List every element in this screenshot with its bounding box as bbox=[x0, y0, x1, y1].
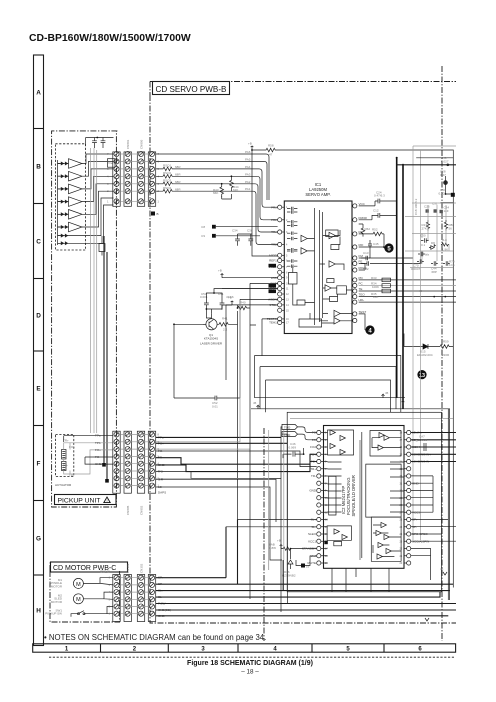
driver IC2 M62417FP bbox=[324, 426, 405, 569]
node +B laser bbox=[231, 301, 234, 305]
connector CN motor b bbox=[148, 575, 155, 622]
cap C45 bbox=[368, 240, 372, 250]
junction dots TE rows bbox=[433, 296, 435, 298]
svg-text:1C6: 1C6 bbox=[449, 263, 455, 267]
IC2 bottom stubs bbox=[332, 568, 389, 592]
jumper L7 bbox=[301, 564, 305, 568]
svg-text:100K: 100K bbox=[372, 285, 379, 289]
IC2 left pins bbox=[317, 430, 321, 434]
resistor R52 bbox=[359, 232, 384, 236]
svg-text:CN302: CN302 bbox=[139, 563, 143, 573]
IC1 internal amplifiers bbox=[301, 232, 340, 324]
wire loop 3 bbox=[266, 380, 391, 412]
svg-text:TEH1: TEH1 bbox=[269, 321, 277, 325]
capacitor C53 bbox=[204, 298, 209, 310]
svg-text:C26: C26 bbox=[424, 205, 430, 209]
svg-text:TE: TE bbox=[359, 287, 363, 291]
svg-text:45: 45 bbox=[440, 567, 444, 571]
photodiode pair aux bbox=[61, 234, 69, 238]
photodiode pair aux bbox=[61, 241, 69, 245]
vertical wires mid-low bbox=[250, 325, 287, 612]
wire PD row bbox=[359, 279, 456, 281]
diode D8 bbox=[429, 244, 436, 249]
svg-text:REF1: REF1 bbox=[269, 259, 277, 263]
svg-text:PA5: PA5 bbox=[245, 157, 251, 161]
svg-text:RFI: RFI bbox=[359, 243, 364, 247]
svg-text:RSQ4: RSQ4 bbox=[163, 186, 172, 190]
svg-text:+B: +B bbox=[248, 142, 252, 146]
IC1 right pins bbox=[353, 204, 357, 208]
svg-text:ERA82-004: ERA82-004 bbox=[417, 353, 433, 357]
connector CN pickup b bbox=[113, 431, 120, 493]
gray verticals mid-low bbox=[269, 430, 284, 570]
resistor R41 2.2 bbox=[219, 323, 228, 327]
svg-text:PICKUP SW: PICKUP SW bbox=[45, 612, 62, 616]
rf node wiring bbox=[359, 234, 385, 270]
svg-text:+B: +B bbox=[218, 269, 222, 273]
svg-text:C13: C13 bbox=[363, 251, 369, 255]
coil tracking bbox=[62, 462, 67, 471]
svg-text:66K: 66K bbox=[213, 191, 218, 195]
svg-text:G: G bbox=[36, 535, 41, 542]
capacitor CAT 100/16 bbox=[420, 443, 432, 451]
pulldown resistor R43 66K bbox=[220, 184, 224, 197]
svg-text:PA4: PA4 bbox=[245, 165, 251, 169]
motor bus wires bbox=[156, 578, 456, 616]
connector CN303 bbox=[124, 575, 131, 622]
resistor R33 bbox=[382, 278, 391, 282]
svg-text:C45: C45 bbox=[373, 242, 379, 246]
motor M1 spindle bbox=[73, 578, 83, 588]
wire to diode row bbox=[404, 334, 415, 347]
capacitor C34 bbox=[235, 234, 252, 246]
svg-text:220R: 220R bbox=[442, 353, 450, 357]
wire RSQ4 to IC1 bbox=[173, 191, 278, 244]
IC2 left inner stubs bbox=[324, 433, 328, 564]
IC1 internal input pairs bbox=[287, 207, 297, 268]
transistor Q1 KTA1504S bbox=[206, 319, 217, 330]
caps bottom cluster bbox=[418, 252, 425, 256]
connector interconnect wires top bbox=[120, 154, 148, 201]
photodiode pair D4 bbox=[61, 200, 69, 204]
preamp op-amp PD1 bbox=[69, 159, 83, 169]
jumper flag B bbox=[151, 212, 155, 216]
svg-text:PA1: PA1 bbox=[245, 187, 251, 191]
svg-text:FRDR: FRDR bbox=[359, 216, 368, 220]
svg-text:0.1: 0.1 bbox=[421, 243, 426, 247]
switch SW1 pickup sw bbox=[74, 611, 88, 614]
svg-text:10K: 10K bbox=[373, 295, 378, 299]
svg-text:M: M bbox=[76, 597, 81, 603]
svg-text:!: ! bbox=[106, 499, 107, 503]
capacitor C30 bbox=[421, 238, 429, 242]
wire loop 2 bbox=[260, 367, 396, 409]
svg-text:27K: 27K bbox=[422, 226, 427, 230]
bus junction arrows bbox=[425, 572, 447, 621]
svg-text:• NOTES ON SCHEMATIC DIAGRAM c: • NOTES ON SCHEMATIC DIAGRAM can be foun… bbox=[44, 633, 266, 642]
svg-text:PA2: PA2 bbox=[245, 180, 251, 184]
photodiode pair D3 bbox=[61, 187, 69, 191]
actuator dashed box bbox=[56, 434, 74, 476]
svg-text:LASER DRIVER: LASER DRIVER bbox=[200, 342, 223, 346]
wire box around IC2 bbox=[287, 412, 441, 592]
wire RSQ3 to IC1 bbox=[173, 184, 278, 232]
bottom cut dash line bbox=[49, 656, 455, 658]
svg-text:FE: FE bbox=[359, 260, 363, 264]
flag FOD bbox=[282, 432, 298, 437]
IC2 amp cluster bottom-left bbox=[334, 529, 347, 540]
resistor R8 1.9K bbox=[441, 243, 449, 246]
cluster gray rails bbox=[405, 203, 456, 268]
svg-text:MIRR: MIRR bbox=[269, 253, 277, 257]
connector interconnect wires H bbox=[120, 578, 148, 614]
svg-text:CN303: CN303 bbox=[126, 563, 130, 573]
wire row PA4 bbox=[156, 154, 269, 200]
CD SERVO PWB-B board outline bbox=[150, 82, 456, 624]
resistor R58 47 bbox=[252, 148, 277, 152]
board name box CD SERVO PWB-B bbox=[153, 82, 230, 95]
svg-text:GND: GND bbox=[95, 462, 103, 466]
wire gray flex 1 bbox=[90, 148, 92, 433]
svg-text:R33: R33 bbox=[371, 276, 377, 280]
wires IC2 right rows bbox=[411, 433, 456, 462]
connector CN servo a bbox=[148, 152, 155, 206]
wire HFL row bbox=[359, 301, 456, 303]
svg-text:CN806: CN806 bbox=[139, 139, 143, 149]
wire vertical gray V17 bbox=[420, 150, 422, 540]
svg-text:SLEO: SLEO bbox=[308, 532, 317, 536]
svg-text:M: M bbox=[76, 582, 81, 588]
connector CN806 bbox=[137, 152, 144, 206]
svg-text:H: H bbox=[36, 607, 41, 614]
IC2 inner frames bbox=[329, 464, 401, 517]
svg-text:68P: 68P bbox=[432, 270, 437, 274]
jumper chip B2 bbox=[212, 234, 216, 238]
wire TEO row bbox=[359, 296, 456, 298]
PICKUP UNIT outline bbox=[52, 131, 118, 507]
wire FM rows bbox=[361, 256, 421, 266]
svg-text:TRo: TRo bbox=[271, 230, 277, 234]
svg-text:Wa: Wa bbox=[425, 253, 430, 257]
circled 4 bbox=[365, 325, 374, 334]
wire F rows bbox=[156, 437, 317, 471]
svg-text:TR2: TR2 bbox=[271, 243, 277, 247]
svg-text:SERVO AMP.: SERVO AMP. bbox=[305, 192, 330, 197]
svg-text:E: E bbox=[36, 385, 41, 392]
connector CN pickup a bbox=[113, 152, 120, 206]
svg-text:MOTOR: MOTOR bbox=[51, 584, 63, 588]
photodiode pair D1 bbox=[61, 162, 69, 166]
preamp op-amp PD2 bbox=[69, 171, 83, 181]
svg-text:CD-BP160W/180W/1500W/1700W: CD-BP160W/180W/1500W/1700W bbox=[29, 33, 191, 44]
wire vertical gray V16 bbox=[412, 146, 414, 540]
svg-text:13: 13 bbox=[419, 373, 425, 379]
svg-text:R40: R40 bbox=[240, 301, 246, 305]
warning triangle bbox=[104, 497, 110, 503]
svg-text:C51: C51 bbox=[218, 292, 224, 296]
thick stub bbox=[441, 202, 454, 204]
connector CN805 bbox=[124, 431, 131, 493]
svg-text:TEO: TEO bbox=[359, 293, 366, 297]
svg-text:FR2: FR2 bbox=[271, 218, 277, 222]
IC2 amp cluster bottom-right bbox=[376, 522, 391, 559]
svg-text:CN802: CN802 bbox=[139, 505, 143, 515]
svg-text:TPb: TPb bbox=[95, 441, 101, 445]
caps row 211 bbox=[426, 209, 429, 212]
pickup unit label box bbox=[55, 495, 117, 505]
svg-text:C12: C12 bbox=[373, 209, 379, 213]
svg-text:FO-: FO- bbox=[63, 464, 68, 468]
wire risers SP bbox=[226, 520, 283, 591]
IC1 internal wiring bbox=[293, 230, 352, 323]
resistor RSQ1 68R bbox=[156, 167, 173, 171]
svg-text:CNP40: CNP40 bbox=[100, 570, 110, 574]
capacitor C38 bbox=[248, 234, 253, 246]
wire bus lower 1 bbox=[255, 397, 406, 399]
preamp op-amp PD6 bbox=[69, 222, 83, 232]
capacitor C52 bbox=[174, 396, 240, 401]
wire loop 1 bbox=[255, 356, 401, 413]
border row-index bar bbox=[34, 55, 44, 646]
svg-text:PA3: PA3 bbox=[245, 172, 251, 176]
svg-text:FO+: FO+ bbox=[310, 452, 316, 456]
motor M2 sled bbox=[73, 594, 83, 604]
IC1 left pins bbox=[278, 205, 282, 209]
svg-text:C9: C9 bbox=[201, 234, 205, 238]
svg-text:DAPS: DAPS bbox=[158, 491, 166, 495]
flag TOD bbox=[282, 424, 298, 429]
photodiode block dashed outline bbox=[55, 144, 85, 250]
wire row PA3 bbox=[156, 161, 267, 200]
wire gray flex 2 bbox=[93, 148, 95, 433]
svg-text:68R: 68R bbox=[175, 165, 181, 169]
wire bus lower 2 bbox=[251, 409, 450, 600]
svg-text:56: 56 bbox=[449, 226, 453, 230]
resistor R62 network bbox=[359, 224, 365, 237]
resistor PAB 0.8 bbox=[281, 547, 317, 551]
jumper square right 2 bbox=[451, 193, 455, 197]
svg-text:MOTOR: MOTOR bbox=[51, 600, 63, 604]
svg-text:R-8: R-8 bbox=[442, 238, 447, 242]
page split dash-dot line col6 bbox=[441, 66, 443, 641]
wire vertical bus V14 bbox=[396, 158, 398, 398]
preamp output wires bbox=[82, 154, 114, 243]
svg-text:47: 47 bbox=[269, 153, 273, 157]
svg-text:F: F bbox=[37, 460, 41, 467]
wire RF row to 5 bbox=[383, 247, 385, 249]
circled 5 bbox=[384, 243, 393, 252]
svg-text:D: D bbox=[36, 312, 41, 319]
net tag flags IC1 left bbox=[269, 264, 277, 268]
IC2 amp cluster top-right bbox=[378, 433, 389, 451]
actuator wires bbox=[64, 443, 113, 474]
bus arrows bbox=[257, 394, 385, 409]
pulldown resistor R44 62K bbox=[230, 176, 234, 191]
capacitor C24 bbox=[378, 199, 397, 204]
svg-text:Figure 18 SCHEMATIC DIAGRAM (1: Figure 18 SCHEMATIC DIAGRAM (1/9) bbox=[187, 660, 313, 667]
split dash-dot line lower-mid bbox=[263, 428, 265, 641]
svg-text:FO-: FO- bbox=[95, 455, 100, 459]
capacitor C pickup bypass 2 bbox=[101, 138, 106, 149]
connector CN801 bbox=[124, 152, 131, 206]
jumper chip B1 bbox=[212, 225, 216, 229]
svg-text:RSQ2: RSQ2 bbox=[163, 171, 172, 175]
svg-text:R62: R62 bbox=[365, 227, 371, 231]
svg-text:0.069: 0.069 bbox=[289, 445, 297, 449]
wire top frame row1 bbox=[413, 145, 456, 147]
svg-text:TOD: TOD bbox=[284, 426, 291, 430]
resistor RSQ3 68R bbox=[156, 182, 173, 186]
zener D16 bbox=[288, 549, 293, 569]
svg-text:FO: FO bbox=[312, 438, 317, 442]
wire PC row bbox=[359, 285, 456, 287]
svg-text:R41: R41 bbox=[222, 317, 228, 321]
cluster verticals bbox=[422, 205, 449, 261]
svg-text:+B: +B bbox=[277, 539, 281, 543]
svg-text:VCC: VCC bbox=[359, 202, 366, 206]
wire black pair 2 bbox=[106, 252, 108, 479]
svg-text:C34: C34 bbox=[232, 229, 238, 233]
wires IC1 left lower bbox=[222, 278, 278, 398]
svg-text:VCC1: VCC1 bbox=[308, 539, 316, 543]
svg-text:C31: C31 bbox=[432, 202, 438, 206]
svg-text:0.01: 0.01 bbox=[212, 405, 218, 409]
svg-text:D8: D8 bbox=[431, 241, 435, 245]
svg-text:TR-: TR- bbox=[311, 474, 316, 478]
test pin row bbox=[359, 314, 366, 330]
photodiode pair D6 bbox=[61, 225, 69, 229]
wire vertical bus V15 bbox=[402, 165, 404, 409]
wire RSQ1 to IC1 bbox=[173, 169, 278, 207]
svg-text:C8: C8 bbox=[201, 225, 205, 229]
connector interconnect wires F bbox=[120, 435, 148, 486]
svg-text:CN801: CN801 bbox=[126, 139, 130, 149]
coil focus bbox=[62, 450, 67, 460]
IC1 internal rails bbox=[315, 208, 323, 325]
svg-text:68R: 68R bbox=[175, 173, 181, 177]
preamp op-amp PD3 bbox=[69, 184, 83, 194]
svg-text:62K: 62K bbox=[233, 188, 238, 192]
svg-text:SPINDLE/LD DRIVER: SPINDLE/LD DRIVER bbox=[351, 475, 356, 516]
wire top frame row2 bbox=[416, 157, 453, 159]
svg-text:GND: GND bbox=[309, 489, 317, 493]
svg-text:TPa: TPa bbox=[95, 434, 101, 438]
svg-text:C30: C30 bbox=[420, 234, 426, 238]
wire right riser bbox=[447, 409, 449, 600]
wire gray flex 3 bbox=[96, 150, 98, 433]
IC2 internal rails bbox=[361, 432, 363, 558]
CD MOTOR PWB-C outline bbox=[50, 563, 120, 623]
connector CN802 bbox=[137, 431, 144, 493]
svg-text:68R: 68R bbox=[175, 180, 181, 184]
capacitor C12 bbox=[359, 213, 397, 220]
photodiode pair D5 bbox=[61, 212, 69, 216]
svg-text:2.2: 2.2 bbox=[223, 328, 228, 332]
svg-text:100/16: 100/16 bbox=[418, 438, 428, 442]
resistor RSQ2 68R bbox=[156, 175, 173, 179]
svg-text:C38: C38 bbox=[247, 229, 253, 233]
resistor R13 bbox=[426, 220, 429, 231]
capacitor C28 electrolytic bbox=[443, 180, 448, 185]
svg-text:FO+: FO+ bbox=[95, 448, 101, 452]
wires flags to IC2 bbox=[281, 427, 317, 443]
svg-text:PA6: PA6 bbox=[245, 150, 251, 154]
wires IC2 right low rows bbox=[411, 520, 456, 581]
svg-text:B: B bbox=[36, 163, 41, 170]
wire +B rail to right edge bbox=[277, 150, 453, 588]
svg-text:KTA1504S: KTA1504S bbox=[204, 337, 218, 341]
wires IC2 gnd block bbox=[411, 476, 433, 512]
vref box bbox=[108, 159, 116, 168]
svg-text:45: 45 bbox=[253, 401, 257, 405]
connector CN servo b bbox=[148, 431, 155, 493]
svg-text:RSQ3: RSQ3 bbox=[163, 178, 172, 182]
border column-index bar bbox=[33, 644, 456, 652]
wire VCC row bbox=[359, 201, 378, 206]
svg-text:CD SERVO PWB-B: CD SERVO PWB-B bbox=[156, 85, 227, 94]
IC2 internal mid grid bbox=[328, 462, 405, 512]
capacitor C pickup bypass bbox=[92, 138, 97, 149]
small series component bbox=[99, 236, 105, 256]
svg-text:TEST: TEST bbox=[359, 310, 367, 314]
svg-text:– 18 –: – 18 – bbox=[241, 668, 259, 675]
wire TE row bbox=[359, 290, 456, 292]
node +B supply arrow bbox=[251, 146, 254, 150]
wire RSQ2 to IC1 bbox=[173, 176, 278, 220]
connector CN302 bbox=[137, 575, 144, 622]
svg-text:45: 45 bbox=[385, 391, 389, 395]
svg-text:0.027: 0.027 bbox=[441, 159, 449, 163]
laser driver wiring bbox=[174, 289, 278, 522]
resistor R35 bbox=[382, 289, 391, 293]
wire pickup top rail bbox=[86, 138, 114, 147]
resistor R80 bbox=[444, 220, 447, 231]
photodiode bias rail bbox=[58, 160, 61, 245]
op-amp IC1 LA9250M SERVO AMP bbox=[284, 201, 352, 334]
svg-text:PICKUP UNIT: PICKUP UNIT bbox=[58, 498, 101, 505]
resistor R59 bbox=[440, 345, 453, 349]
svg-text:A: A bbox=[36, 89, 41, 96]
capacitor C46 bbox=[283, 448, 304, 458]
resistor R40 bbox=[238, 306, 247, 310]
wires IC2 left lower bbox=[226, 520, 317, 566]
svg-text:R52: R52 bbox=[372, 228, 378, 232]
svg-text:CN805: CN805 bbox=[126, 505, 130, 515]
svg-text:L6: L6 bbox=[306, 565, 310, 569]
wire black pair 1 bbox=[103, 236, 105, 463]
svg-text:HZS9NB2: HZS9NB2 bbox=[282, 573, 296, 577]
wire vref bus bbox=[252, 150, 278, 256]
svg-text:C18 100/6.3: C18 100/6.3 bbox=[414, 198, 418, 215]
svg-text:68R: 68R bbox=[175, 187, 181, 191]
wire top frame row3 bbox=[396, 164, 456, 166]
IC1 internal blocks bbox=[289, 230, 347, 327]
svg-text:R59: R59 bbox=[443, 340, 449, 344]
circled 13 bbox=[417, 370, 426, 379]
svg-text:FO2: FO2 bbox=[310, 445, 316, 449]
svg-text:B: B bbox=[157, 212, 159, 216]
connector CN motor a bbox=[113, 575, 120, 622]
svg-text:RSQ1: RSQ1 bbox=[163, 164, 172, 168]
junction dots cluster bbox=[447, 164, 450, 167]
motor board label box bbox=[51, 562, 128, 572]
svg-text:TR+: TR+ bbox=[310, 467, 316, 471]
svg-text:0.8W: 0.8W bbox=[269, 546, 276, 550]
diode D15 bbox=[415, 344, 440, 349]
svg-text:HFL: HFL bbox=[359, 298, 365, 302]
svg-text:0.47/6.3: 0.47/6.3 bbox=[374, 194, 385, 198]
IC2 amp cluster top-left bbox=[330, 430, 345, 455]
